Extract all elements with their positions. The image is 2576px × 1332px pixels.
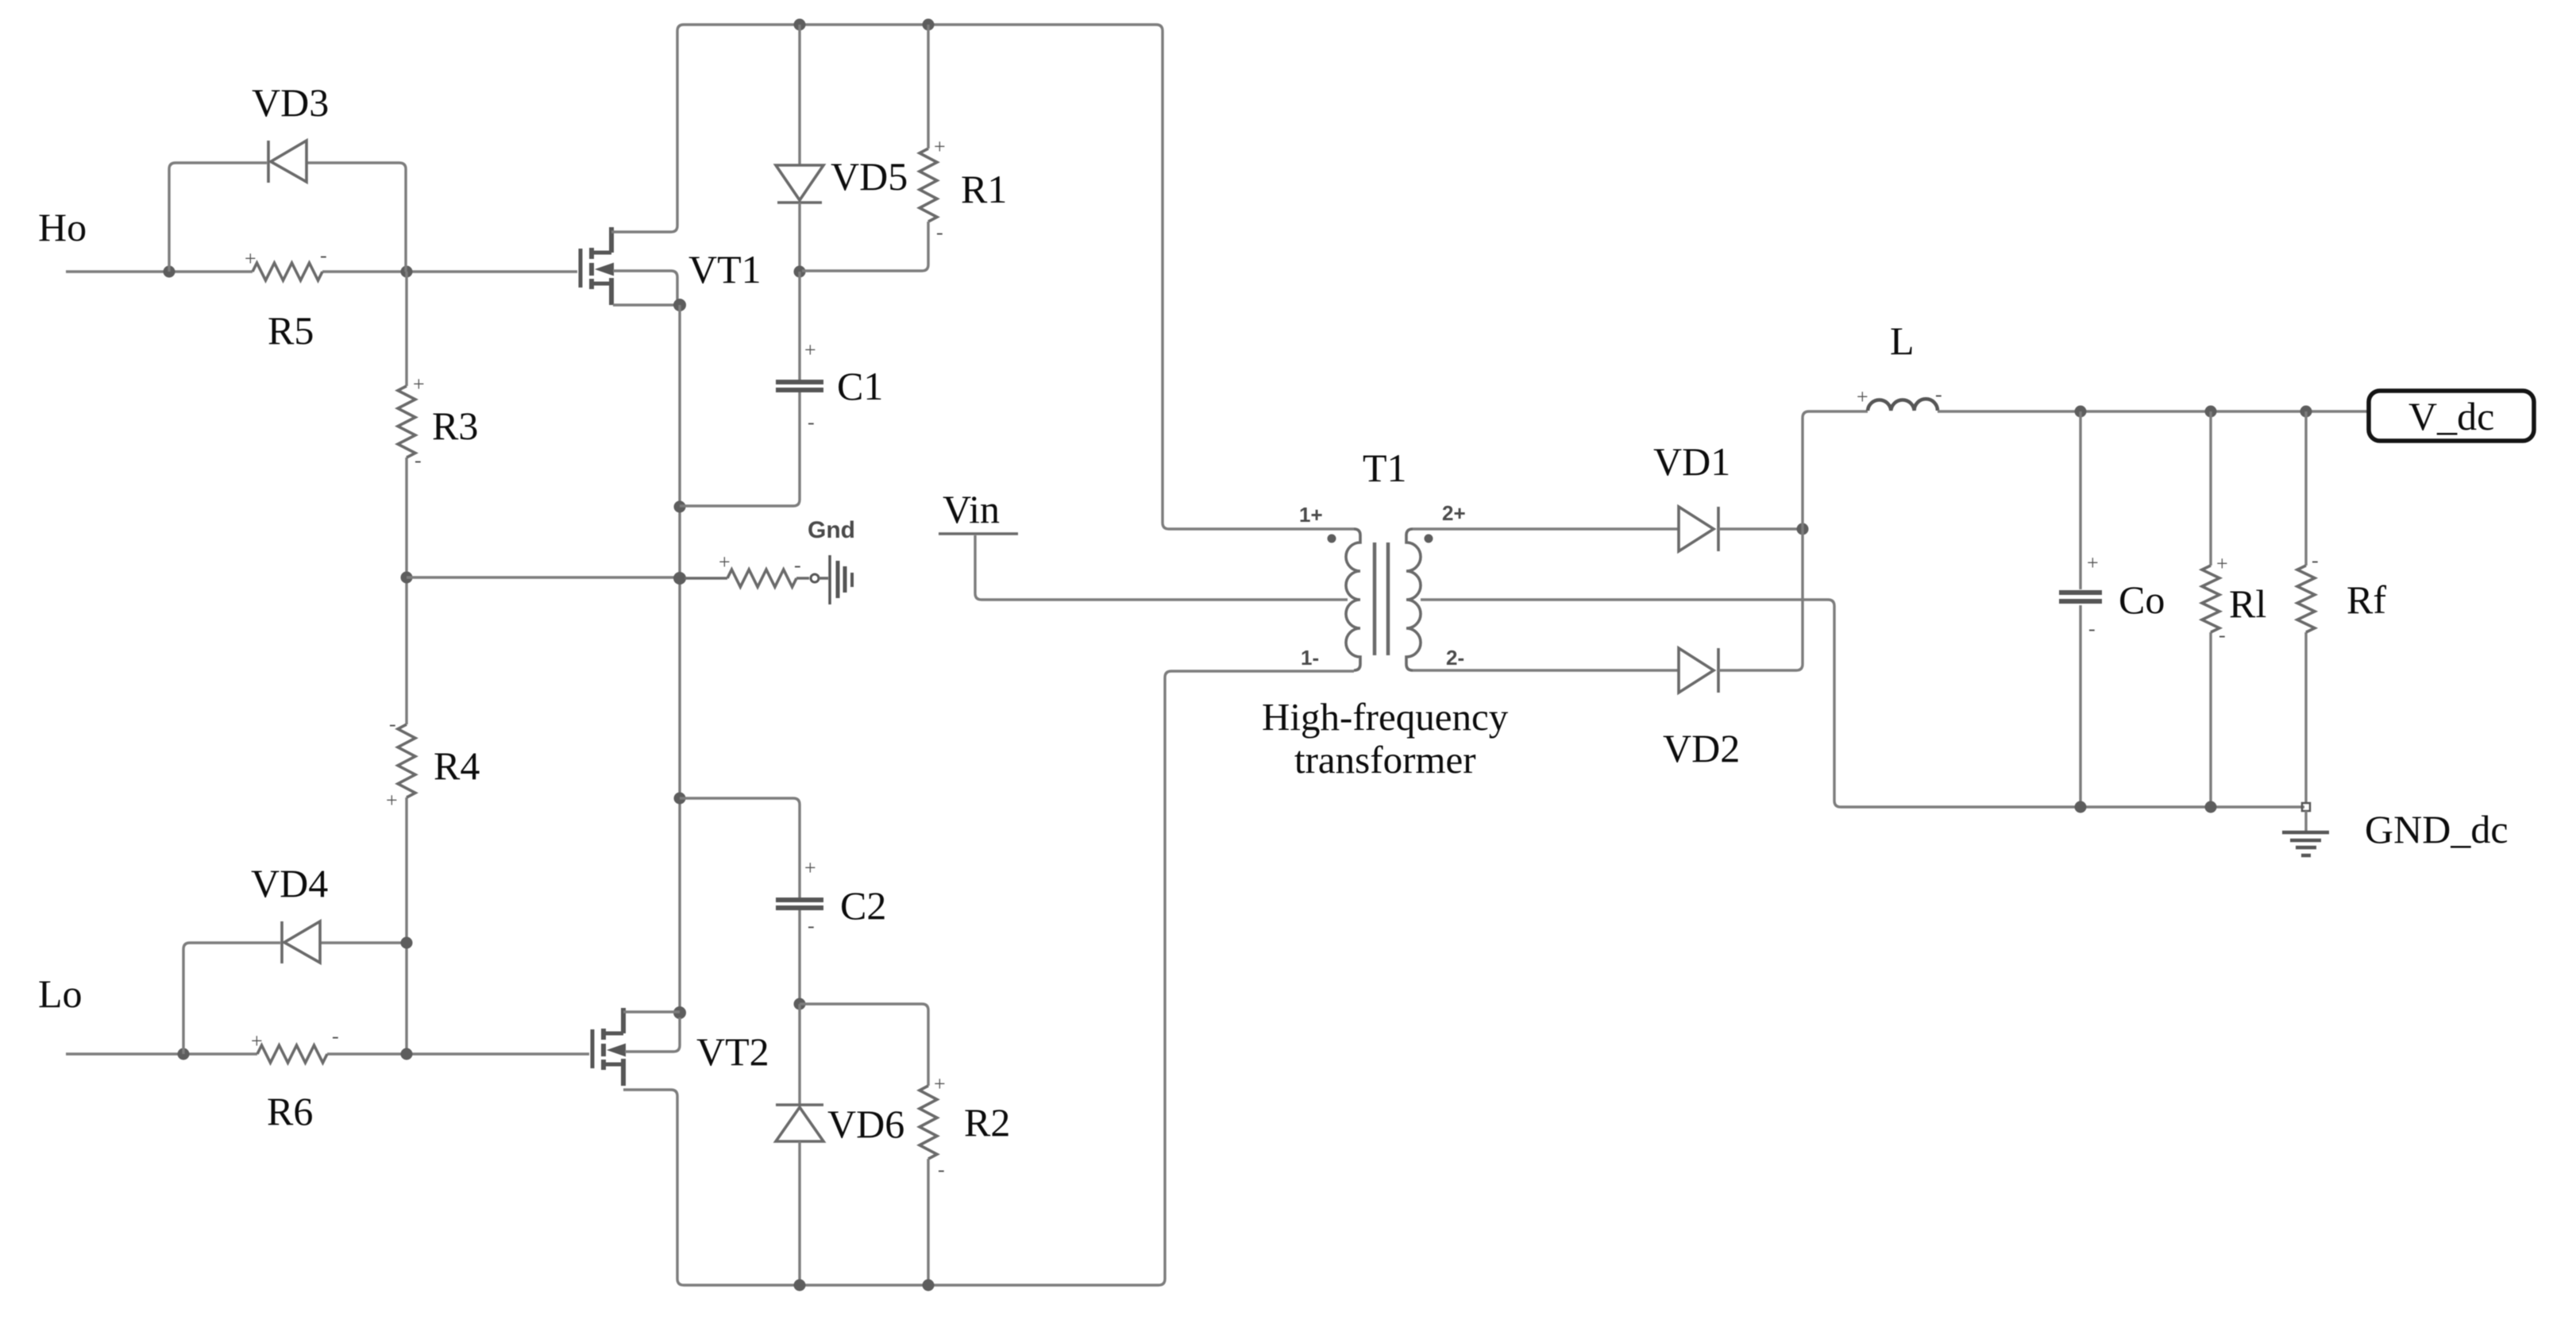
node junction cross dot center [673, 572, 686, 585]
transformer T1 primary winding [1346, 529, 1360, 670]
resistor R2 [920, 1086, 937, 1159]
svg-text:-: - [794, 554, 801, 577]
wire VD1 cathode to node [1718, 527, 1803, 530]
svg-text:Lo: Lo [38, 971, 83, 1016]
node junction dot Lo-VD4 right [401, 1048, 413, 1060]
wire Vin to primary center tap [975, 535, 1348, 600]
svg-text:R6: R6 [267, 1089, 313, 1133]
wire R2 upper lead [800, 1004, 928, 1086]
wire secondary 2- to VD2 [1413, 669, 1679, 671]
wire secondary center tap to output return [1421, 600, 2304, 807]
wire node up to L [1803, 411, 1868, 529]
node junction dot VD4-R4 [401, 937, 413, 949]
node open terminal circle [811, 574, 819, 582]
svg-text:+: + [934, 1072, 946, 1095]
wire VT2 body tie [625, 1017, 680, 1052]
resistor Rf [2304, 411, 2307, 804]
diode VD5 [776, 165, 823, 203]
node phase dot secondary [1425, 535, 1433, 543]
svg-text:-: - [2219, 624, 2226, 647]
wire Vin underline [939, 532, 1018, 535]
svg-text:+: + [804, 856, 816, 879]
node junction dot Lo-VD4 left [178, 1048, 190, 1060]
node junction dot Ho-VD3 left [164, 266, 175, 278]
wire left column R3/R4 [405, 272, 407, 1054]
svg-text:GND_dc: GND_dc [2365, 807, 2509, 851]
svg-text:-: - [332, 1025, 339, 1048]
svg-text:-: - [415, 449, 422, 472]
wire VD3 right stub [307, 163, 406, 272]
svg-text:L: L [1890, 319, 1915, 363]
wire VT1 drain to top rail [611, 25, 684, 232]
wire VT1 body tie [613, 271, 677, 300]
capacitor Co [2079, 411, 2081, 807]
wire secondary 2+ to VD1 [1413, 527, 1679, 530]
resistor Rl [2209, 411, 2212, 807]
wire VD4 right stub [320, 941, 407, 944]
node junction dot bottom rail VD6 [794, 1280, 806, 1291]
wire Lo input to VT2 gate [66, 1052, 589, 1055]
svg-text:C1: C1 [837, 364, 883, 408]
capacitor C1 [776, 382, 823, 390]
wire C1 leads [680, 272, 800, 506]
svg-text:-: - [938, 1158, 945, 1181]
wire C2 top lead [680, 798, 800, 898]
svg-text:VD4: VD4 [251, 861, 328, 905]
svg-text:1+: 1+ [1299, 503, 1323, 527]
svg-text:VD3: VD3 [252, 80, 329, 125]
svg-text:-: - [2312, 549, 2319, 572]
wire C2 bottom lead [798, 910, 800, 1004]
svg-text:T1: T1 [1363, 446, 1407, 490]
node phase dot primary [1328, 535, 1336, 543]
wire VT2 drain lead [623, 1010, 680, 1013]
node junction dot top rail R1 [923, 19, 935, 31]
resistor Gnd bias [684, 569, 809, 587]
node junction dot rectified [1797, 523, 1809, 535]
ground GND_dc [2304, 811, 2307, 831]
svg-text:1-: 1- [1301, 646, 1319, 670]
svg-text:-: - [2088, 617, 2096, 640]
svg-text:Rl: Rl [2229, 581, 2266, 626]
svg-text:R2: R2 [964, 1100, 1010, 1145]
wire VD5 upper lead [798, 25, 800, 165]
svg-text:-: - [808, 411, 815, 434]
svg-text:+: + [251, 1029, 263, 1052]
wire Ho input to VT1 gate [66, 270, 577, 272]
wire VD2 cathode up to node [1718, 529, 1803, 670]
svg-text:V_dc: V_dc [2408, 394, 2494, 438]
transformer T1 secondary winding [1406, 529, 1421, 670]
transformer T1 core [1375, 542, 1388, 655]
svg-text:2-: 2- [1446, 646, 1464, 670]
svg-text:VD2: VD2 [1663, 726, 1740, 770]
resistor R6 [257, 1045, 327, 1063]
node V_dc box [2369, 391, 2534, 441]
node junction dot Co bottom [2075, 801, 2087, 813]
svg-text:+: + [934, 135, 946, 158]
svg-text:VT2: VT2 [696, 1029, 769, 1074]
diode VD1 [1679, 507, 1718, 551]
node VT1 source junction dot [673, 299, 686, 311]
svg-text:Vin: Vin [943, 487, 1000, 531]
wire VD6 lower lead [798, 1141, 800, 1285]
svg-text:Co: Co [2119, 577, 2165, 622]
wire R2 lower lead [927, 1159, 929, 1285]
node junction dot Rl bottom [2205, 801, 2217, 813]
wire VT2 source lead [623, 1090, 684, 1285]
node junction dot top rail VD5 [794, 19, 806, 31]
node junction dot C2/VD6/R2 [794, 998, 806, 1010]
svg-text:+: + [804, 338, 816, 361]
svg-text:R4: R4 [434, 743, 480, 788]
wire VD6 upper lead [798, 1004, 800, 1104]
diode VD3 [268, 141, 307, 183]
svg-text:+: + [2087, 551, 2099, 574]
resistor R4 [398, 724, 415, 797]
diode VD4 [282, 921, 320, 963]
node junction dot C2 tie [674, 793, 686, 805]
diode VD2 [1679, 648, 1718, 693]
svg-text:R5: R5 [268, 308, 314, 353]
svg-text:C2: C2 [840, 883, 886, 928]
wire to Gnd symbol [819, 577, 828, 580]
svg-text:2+: 2+ [1442, 501, 1466, 525]
svg-text:+: + [413, 373, 425, 396]
node junction dot mid divider [401, 572, 413, 584]
svg-text:+: + [1857, 385, 1868, 408]
svg-text:VT1: VT1 [688, 247, 762, 291]
svg-text:-: - [389, 712, 396, 735]
diode VD6 [776, 1105, 823, 1141]
wire VD3 left stub [169, 163, 267, 272]
svg-text:Rf: Rf [2347, 577, 2386, 622]
ground Gnd (rotated) [830, 555, 852, 604]
transistor VT1 [580, 227, 613, 305]
wire R1 leads [802, 25, 928, 271]
svg-text:+: + [719, 550, 731, 573]
capacitor C2 [776, 900, 823, 908]
svg-text:-: - [320, 244, 327, 267]
svg-text:-: - [936, 221, 943, 244]
svg-text:Ho: Ho [38, 205, 87, 249]
resistor R3 [398, 386, 415, 458]
node junction dot Rf top [2300, 406, 2312, 418]
svg-text:VD5: VD5 [831, 154, 908, 199]
wire VT1 source lead [613, 303, 680, 306]
svg-text:VD1: VD1 [1653, 439, 1730, 484]
transistor VT2 [592, 1008, 625, 1086]
node junction dot Co top [2075, 406, 2087, 418]
wire bottom rail [684, 671, 1354, 1285]
wire VD5 to C1 node [798, 203, 800, 272]
node junction dot C1 tie [674, 501, 686, 513]
svg-text:+: + [245, 247, 256, 270]
resistor R1 [920, 149, 937, 222]
inductor L [1868, 399, 1938, 411]
svg-text:+: + [2216, 552, 2228, 575]
wire mid node to center column [407, 576, 680, 578]
node open square Rf bottom [2302, 803, 2310, 811]
node VT2 drain junction dot [673, 1006, 686, 1019]
wire VD4 left stub [183, 943, 280, 1054]
svg-text:R1: R1 [961, 167, 1007, 211]
svg-text:R3: R3 [432, 403, 478, 448]
node junction dot VD5/R1/C1 [794, 266, 806, 278]
svg-text:transformer: transformer [1294, 738, 1476, 782]
svg-text:+: + [386, 789, 398, 812]
node junction dot Ho-VD3 right [401, 266, 413, 278]
wire center column VT1 source to VT2 drain [678, 305, 681, 1013]
svg-text:VD6: VD6 [827, 1102, 904, 1146]
svg-text:Gnd: Gnd [808, 517, 855, 543]
svg-text:-: - [808, 914, 815, 937]
wire top rail [684, 25, 1354, 529]
svg-text:-: - [1935, 383, 1942, 406]
resistor R5 [253, 263, 322, 280]
node junction dot Rl top [2205, 406, 2217, 418]
wire output top rail [1938, 410, 2367, 412]
svg-text:High-frequency: High-frequency [1262, 695, 1509, 739]
node junction dot bottom rail R2 [923, 1280, 935, 1291]
